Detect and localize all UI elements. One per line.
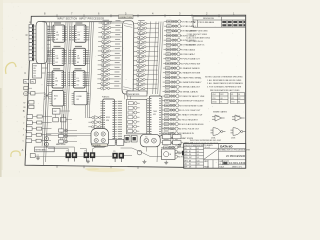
svg-text:TP2: TP2 [231,101,234,103]
resistor R3 [37,121,42,124]
inverter gate X8 [98,54,114,58]
connector J2 pin 4 [29,35,34,39]
spare gate U12B [232,115,245,121]
svg-text:9 PUNCH DATA OUT: 9 PUNCH DATA OUT [181,58,201,61]
buffer gate B7 [164,48,182,51]
net label X15 [101,84,108,87]
inverter gate X5 [98,40,114,44]
net label X2 out [115,24,120,27]
wire P1 P2 feed [46,147,96,152]
bottom notes [190,140,221,145]
ground Q6 [142,160,146,163]
buffer gate B1 [164,20,182,23]
wire J1 pin 4 out [47,36,50,38]
wire J2-6 [34,43,36,45]
IC U3 74LS244 [50,71,66,88]
net label X8 [102,51,109,54]
wire LED DS2 to U11 [147,107,149,109]
spare gate U13A [211,128,226,136]
wire data bus center [61,22,72,140]
svg-text:244: 244 [56,58,59,60]
resistor R5 [36,133,41,136]
inverter gate X13 [97,77,113,81]
buffer gate B16 [163,90,181,93]
wire J3-5 [32,140,36,142]
wire osc net [56,111,72,120]
switch S1 [45,137,49,141]
key switch SW2 [59,134,64,137]
capacitor C6 [60,118,66,122]
approvals diagonal strike [204,149,218,159]
connector P2 [84,152,96,161]
wire J2-1 [34,25,36,27]
IC U10 PIA [100,99,117,143]
relay driver box 1 [108,139,116,145]
svg-text:U10: U10 [106,120,109,122]
LED DS3 [128,111,140,114]
svg-text:9-9: 9-9 [197,154,199,156]
pin numbers U6 left [68,72,70,86]
inverter gate X2 [98,26,114,30]
label column [23,102,25,109]
buffer gate B17 [162,94,180,97]
buffer gate B27 [161,141,179,144]
svg-text:3: 3 [23,129,24,131]
wire gate X4 out [114,36,122,38]
svg-text:23 HOLD ACKNOWLEDGE: 23 HOLD ACKNOWLEDGE [179,123,204,126]
svg-text:RST: RST [33,71,36,73]
test point TP2 [30,80,35,84]
wire gate A1 out [150,23,159,25]
svg-text:1: 1 [24,116,25,118]
driver gate D2 [88,120,104,124]
inverter gate A10 [133,64,149,68]
IC U6 top label [75,67,82,70]
switch S2 [45,142,49,146]
key switch SW3 [59,140,64,143]
wire P3 right [124,155,132,157]
lamp DS10 [162,149,176,160]
zone tick marks top border [57,14,219,17]
wire gate A6 out [149,46,158,48]
net label X13 out [114,75,119,78]
svg-text:2. ALL CAPACITANCE IN MICROFAR: 2. ALL CAPACITANCE IN MICROFARADS [207,82,244,85]
svg-text:9-9: 9-9 [197,151,199,153]
inverter gate A12 [133,73,149,77]
wire J2-4 [34,36,36,38]
wire gate X10 out [113,64,121,66]
svg-text:DS10: DS10 [212,101,216,103]
net label X9 out [115,57,120,60]
connector J2 pin 3 [29,32,34,36]
net label X3 [102,28,109,31]
wire SW1 [68,130,78,132]
wire J3-2 [32,122,36,124]
resistor network RN1 [29,101,34,104]
wire gate A5 out [149,41,158,43]
wire gate X7 out [113,50,121,52]
inverter gate X3 [98,30,114,34]
capacitor C5 [53,118,59,122]
svg-text:R7: R7 [23,102,25,104]
pin numbers U5 left [69,50,71,64]
inverter gate X12 [98,72,114,76]
wire gate X11 out [113,69,121,71]
svg-text:C: C [24,71,26,75]
driver gate D1 [89,116,105,120]
net label A15 [137,84,144,87]
wire SW3 [68,141,78,143]
net label X1 [103,19,110,22]
svg-text:244: 244 [77,80,80,82]
wire gate X15 out [113,87,121,89]
LED DS7 [128,130,140,133]
svg-text:MAG DRIVE: MAG DRIVE [56,143,66,146]
wire gate A4 out [149,36,158,38]
wire J1 pin 7 out [47,47,50,49]
input cable J1 [36,22,47,64]
inverter gate A8 [133,54,149,58]
connector J2 pin 5 [29,39,34,43]
inverter gate A15 [133,87,149,91]
pin numbers U2 left [47,50,49,64]
wire long run lower left 2 [46,135,91,137]
wire bus between U4 and gates [85,22,93,118]
net label X7 out [115,47,120,50]
wire gate A9 out [149,60,158,62]
net label X3 out [115,29,120,32]
buffer gate B19 [162,104,180,107]
net label A2 [138,24,145,27]
buffer gate B9 [163,57,181,60]
svg-text:SOLENOID: SOLENOID [93,145,102,147]
svg-text:12 READER STROBE: 12 READER STROBE [180,72,201,75]
net label A14 [137,80,144,83]
spare gate U13B [231,128,246,136]
size cell [219,161,228,165]
svg-text:2 KYBD DATA 1: 2 KYBD DATA 1 [182,25,197,28]
bottom row of title block [219,166,242,169]
filter FL2 [131,136,137,143]
yellow smudge bottom center [87,168,125,172]
svg-text:C2: C2 [37,155,39,157]
svg-text:U8: U8 [77,99,79,101]
buffer gate B13 [163,76,181,79]
svg-text:4 KYBD DATA 3: 4 KYBD DATA 3 [181,34,196,37]
buffer gate B26 [161,136,179,139]
wire J1 pin 8 out [47,51,50,53]
svg-text:A: A [22,148,24,152]
zone tick marks left border [25,54,31,130]
resistor network RN2 [29,105,34,108]
IC U7 8251 [50,91,66,107]
inverter gate A5 [134,40,150,44]
net label X5 out [115,38,120,41]
wire J1 pin 3 out [47,32,50,34]
buffer gate B22 [162,118,180,121]
wire long bottom run [35,155,112,157]
buffer gate B8 [163,53,181,56]
inverter gate A13 [133,78,149,82]
svg-text:9-10: 9-10 [197,160,200,162]
net label X6 [102,42,109,45]
IC U6 74LS244 [71,71,87,88]
wire J1 pin 6 out [47,43,50,45]
IC U11 [147,96,162,136]
wire E1 [175,152,182,154]
wire gate A15 out [148,88,157,90]
header underline wire [42,20,112,22]
code cell dark mark [223,162,227,164]
wire gate X8 out [113,55,121,57]
buffer gate B23 [162,122,180,125]
buffer gate B6 [164,43,182,46]
buffer gate B20 [162,108,180,111]
terminal E2 [178,144,181,147]
pin numbers U4 left [69,27,71,41]
wire J1 pin 9 out [47,54,50,56]
net label A11 [137,66,144,69]
svg-text:U5: U5 [77,62,79,64]
wire J1 pin 1 out [47,25,50,27]
net label A9 [137,56,144,59]
svg-text:CONNECTORS: CONNECTORS [119,17,133,19]
svg-text:16 SERIAL DATA IN: 16 SERIAL DATA IN [180,90,198,93]
net label A3 [138,29,145,32]
svg-text:22 HOLD REQUEST: 22 HOLD REQUEST [179,119,198,121]
svg-text:P2: P2 [238,98,240,100]
material cell text [204,160,209,169]
filter FL1 [124,136,130,143]
inverter gate X7 [98,49,114,53]
tolerance cell text [204,144,213,149]
svg-text:244: 244 [77,58,80,60]
net label X12 out [115,71,120,74]
ground motor [164,161,168,164]
pin labels U10 right [118,101,122,141]
inverter gate A4 [134,36,150,40]
svg-text:U6: U6 [77,85,79,87]
transistor Q6 [137,150,142,155]
pin numbers U3 left [47,72,49,86]
svg-text:7 KYBD DATA 6: 7 KYBD DATA 6 [181,48,196,51]
buffer gate B28 [161,146,179,149]
resistor R6 [36,139,41,142]
title block grid [184,144,246,169]
wire gate X12 out [113,73,121,75]
wire gate A13 out [148,78,157,80]
svg-text:7445: 7445 [153,111,157,113]
wire gate A12 out [149,74,158,76]
svg-text:DES: DES [184,154,187,156]
wire J1 pin 10 out [47,58,50,60]
wire gate A10 out [149,64,158,66]
svg-text:5 KYBD DATA 4: 5 KYBD DATA 4 [181,39,196,42]
net label X4 [102,33,109,36]
paper speckle [2,3,245,173]
wire gate X5 out [114,41,122,43]
svg-text:Q6: Q6 [220,98,222,100]
svg-text:B: B [23,109,25,113]
svg-text:3 KYBD DATA 2: 3 KYBD DATA 2 [181,30,196,33]
zone tick marks bottom border [57,165,138,169]
net label X11 [102,65,109,68]
net label X14 out [114,80,119,83]
buffer gate B11 [163,67,181,70]
key switch SW1 [59,129,64,132]
net label X10 out [115,61,120,64]
wire crossover to U7 [44,92,50,100]
relay driver box 2 [117,139,124,145]
connector J2 pin 9 [29,54,34,58]
wire gate X13 out [113,78,121,80]
reference table 1 [212,93,229,104]
inverter gate X9 [98,58,114,62]
buffer gate B2 [164,25,182,28]
crystal Y1 [24,91,28,95]
net label X11 out [115,66,120,69]
IC U3 top label [53,67,60,70]
inverter gate X14 [97,82,113,86]
net label A5 [138,38,145,41]
svg-text:4: 4 [23,135,24,137]
svg-text:I/O PROCESSOR: I/O PROCESSOR [226,155,245,158]
net label X6 out [115,43,120,46]
approval rows text [184,148,199,169]
drawing sheet interior (warped quad) [25,15,246,168]
yellow stain curl lower left [11,151,20,157]
inverter gate X4 [98,35,114,39]
svg-text:INDICATORS: INDICATORS [128,93,140,96]
connector J2 pin 2 [29,28,34,32]
svg-text:244: 244 [55,80,58,82]
wire J2-7 [34,47,36,49]
svg-text:U14: U14 [33,76,36,78]
connector P3 [112,153,124,162]
LED DS5 [128,120,140,123]
indicator header box [127,91,147,96]
svg-text:C19: C19 [212,98,215,100]
wire gate A3 out [150,32,159,34]
wire gate X3 out [114,31,122,33]
LED DS2 [128,106,140,109]
net label X8 out [115,52,120,55]
svg-text:14 DATA TERM READY: 14 DATA TERM READY [180,81,202,84]
wire J2-9 [34,54,36,56]
net label A13 [137,75,144,78]
svg-text:.XX ± .01: .XX ± .01 [204,147,210,149]
wire J2-10 [34,58,36,60]
svg-text:REVISIONS: REVISIONS [203,18,215,20]
wire gate A7 out [149,50,158,52]
inverter gate A2 [134,26,150,30]
driver gate D3 [88,125,104,129]
svg-text:13 TAPE FEED SERIAL: 13 TAPE FEED SERIAL [180,76,202,79]
svg-text:PIA 8255: PIA 8255 [102,96,109,99]
buffer gate B12 [163,71,181,74]
IC U1 74LS244 [51,25,67,42]
svg-text:9-8: 9-8 [197,148,199,150]
svg-text:SPARE GATES: SPARE GATES [213,111,227,114]
net label X10 [102,61,109,64]
buffer gate B21 [162,113,180,116]
wire interconnect bus [147,22,163,163]
wire U14 out [42,67,48,69]
svg-text:RJ: RJ [189,151,191,153]
svg-text:W1: W1 [231,98,234,100]
capacitor C2 [30,154,35,158]
border frame [25,15,246,168]
capacitor C1 [31,92,35,95]
net label X4 out [115,33,120,36]
svg-text:NOTES: UNLESS OTHERWISE SPECIF: NOTES: UNLESS OTHERWISE SPECIFIED [205,77,243,79]
svg-text:U1: U1 [56,39,58,41]
wire J3-1 [33,116,37,118]
svg-text:3. FOR SCHEMATIC REFERENCE SEE: 3. FOR SCHEMATIC REFERENCE SEE [207,85,242,88]
buffer gate B14 [163,80,181,83]
wire J1 pin 2 out [47,29,50,31]
svg-text:555: 555 [33,73,36,75]
inverter gate X11 [98,68,114,72]
svg-text:REF DESIGNATIONS LAST USED: REF DESIGNATIONS LAST USED [210,89,240,92]
indicator list box [127,99,147,134]
buffer gate B25 [161,132,179,135]
net label X14 [101,79,108,82]
svg-text:U3: U3 [55,85,57,87]
IC U5 top label [75,45,82,48]
svg-text:TP2: TP2 [31,81,34,83]
connector J2 pin 6 [29,43,34,47]
inverter gate X15 [97,86,113,90]
wire drivers [104,141,127,143]
net label A12 [137,70,144,73]
wire J2-8 [34,51,36,53]
svg-text:18 INTERRUPT REQUEST: 18 INTERRUPT REQUEST [180,101,205,103]
buffer gate B15 [163,85,181,88]
wire J1 pin 5 out [47,40,50,42]
net label X15 out [114,85,119,88]
svg-text:LS138: LS138 [77,96,82,98]
scanner shadow left edge [0,88,2,177]
svg-text:17 REMOTE SELECT LINE: 17 REMOTE SELECT LINE [180,96,205,98]
svg-text:R22: R22 [220,94,223,96]
net label X13 [101,75,108,78]
svg-text:15 SERIAL DATA OUT: 15 SERIAL DATA OUT [180,86,201,89]
svg-text:D: D [26,33,28,37]
inverter gate A11 [133,68,149,72]
svg-text:U11: U11 [153,114,156,116]
svg-text:10-901-1643: 10-901-1643 [229,161,246,165]
IC U4 74LS244 [72,25,88,42]
input cable J1 inner edge [43,22,45,64]
oscillator box [52,109,60,115]
svg-text:U4: U4 [77,39,79,41]
resistor R2 [37,115,42,118]
connector J2 pin 10 [29,57,34,61]
wire top horizontal run [43,21,126,23]
LED DS4 [128,116,140,119]
svg-text:KEYBOARD: KEYBOARD [35,148,46,151]
svg-text:244: 244 [77,35,80,37]
connector J2 pin 1 [29,24,34,28]
pin numbers U1 left [48,27,50,41]
svg-text:24 SYNC PULSE OUT: 24 SYNC PULSE OUT [179,129,200,131]
wire gate X14 out [113,83,121,85]
wire rows J2 to U1-U3 [49,27,90,86]
svg-text:Y1: Y1 [25,94,27,96]
output register boxes [163,135,171,139]
wire gate X2 out [114,27,122,29]
